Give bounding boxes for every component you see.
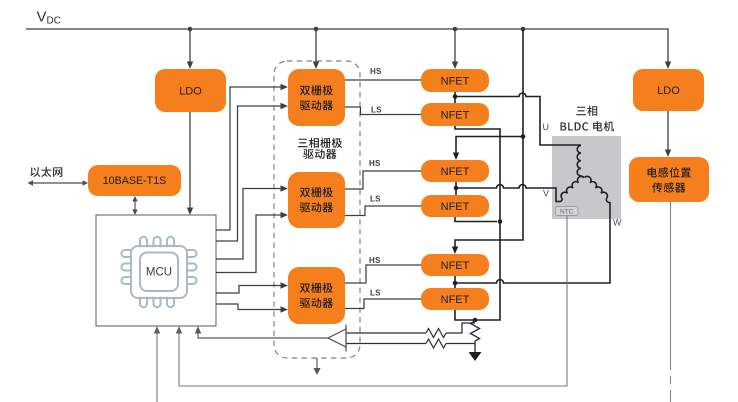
wire VDC rail to dual gate driver 1 <box>315 29 317 62</box>
motor winding phase U coil <box>577 146 584 178</box>
svg-text:U: U <box>543 122 550 132</box>
wire LDO2 to position sensor <box>667 111 669 150</box>
svg-text:NFET: NFET <box>441 110 470 122</box>
junction Q4 source on ground bus <box>498 219 503 224</box>
svg-text:NFET: NFET <box>441 260 470 272</box>
NFET Q1 <box>421 69 489 92</box>
junction on VDC rail above LDO <box>188 27 193 32</box>
wire phase V node Q3 source to Q4 drain <box>455 182 457 195</box>
svg-text:LS: LS <box>371 106 382 115</box>
svg-text:NFET: NFET <box>441 294 470 306</box>
wire MCU PWM4 to driver2 LS input <box>216 215 281 273</box>
motor winding phase V end hook <box>560 199 563 202</box>
svg-text:VDC: VDC <box>37 9 61 27</box>
wire 10BASE-T1S to MCU bidirectional <box>134 197 136 214</box>
NFET Q5 <box>421 254 489 276</box>
svg-text:HS: HS <box>369 159 381 168</box>
junction phase U <box>453 94 458 99</box>
junction on VDC rail for HS drain bus <box>521 27 526 32</box>
wire MCU PWM5 to driver3 HS input <box>216 286 281 294</box>
wire driver3 LS output to NFET Q6 gate <box>345 299 421 309</box>
wire MCU PWM2 to driver1 LS input <box>216 106 281 241</box>
inductive position sensor 电感位置传感器 <box>629 157 709 202</box>
junction on VDC rail above gate driver 1 <box>314 27 319 32</box>
junction phase W <box>453 281 458 286</box>
ground below dashed box <box>316 358 318 368</box>
motor winding phase W coil <box>585 175 610 199</box>
wire VDC rail to NFET Q1 drain <box>454 29 456 62</box>
motor winding phase W end hook <box>606 199 610 203</box>
resistor sense bottom <box>346 339 475 348</box>
svg-text:NFET: NFET <box>441 166 470 178</box>
wire op-amp output to MCU ADC <box>198 333 328 338</box>
svg-text:MCU: MCU <box>146 267 172 279</box>
wire Q6 source to shunt node <box>455 310 475 320</box>
wire MCU PWM1 to driver1 HS input <box>216 87 281 230</box>
NFET Q3 <box>421 160 489 182</box>
junction drain bus to NFET Q3 <box>521 134 526 139</box>
wire LDO1 to MCU 3V3 <box>189 112 191 208</box>
wire position sensor output <box>670 202 672 402</box>
wire driver1 LS output to NFET Q2 gate <box>345 107 421 115</box>
NFET Q2 <box>421 103 489 126</box>
wire MCU PWM3 to driver2 HS input <box>216 189 281 260</box>
resistor shunt (vertical) <box>471 321 480 352</box>
wire MCU PWM6 to driver3 LS input <box>216 304 281 310</box>
svg-text:NFET: NFET <box>441 76 470 88</box>
NFET Q4 <box>421 195 489 217</box>
wire phase W node Q5 source to Q6 drain <box>454 276 456 288</box>
resistor sense top <box>346 323 475 338</box>
motor body 三相 BLDC 电机 <box>552 136 621 219</box>
wire VDC rail to LDO1 <box>189 29 191 62</box>
junction phase V <box>454 186 459 191</box>
svg-text:V: V <box>543 189 549 199</box>
svg-text:NTC: NTC <box>560 209 574 216</box>
svg-text:W: W <box>613 218 622 228</box>
dashed box three-phase gate driver <box>274 61 360 358</box>
motor winding phase V coil <box>559 175 584 199</box>
PHY 10BASE-T1S <box>88 165 181 196</box>
svg-text:LDO: LDO <box>179 86 202 98</box>
dual gate driver U2 <box>288 172 345 228</box>
NTC thermistor label box <box>556 207 579 216</box>
LDO U4 (left) <box>155 69 226 112</box>
dual gate driver U3 <box>288 267 345 324</box>
wire phase W to motor terminal W <box>455 202 610 283</box>
op-amp current sense <box>345 325 347 352</box>
svg-text:LS: LS <box>370 195 381 204</box>
junction shunt node <box>473 318 478 323</box>
wire phase V to motor terminal V <box>456 185 561 202</box>
svg-text:HS: HS <box>369 256 381 265</box>
wire drain bus to NFET Q3 drain <box>456 137 523 154</box>
dual gate driver U1 <box>288 69 345 126</box>
wire driver2 HS output to NFET Q3 gate <box>345 171 421 189</box>
label BLDC 电机 <box>561 121 615 131</box>
svg-text:HS: HS <box>370 67 382 76</box>
wire phase U to motor terminal U <box>455 93 581 145</box>
LDO U5 (right) <box>633 69 704 111</box>
MCU chip icon <box>121 237 196 307</box>
arrowhead into LDO2 <box>665 62 671 70</box>
wire MCU aux signal to bottom edge <box>156 333 158 402</box>
wire driver2 LS output to NFET Q4 gate <box>345 206 421 216</box>
wire Q2 source to ground bus <box>455 126 500 320</box>
label 三相 <box>576 106 597 116</box>
NFET Q6 <box>421 288 489 310</box>
wire driver1 HS output to NFET Q1 gate <box>345 79 421 81</box>
wire driver3 HS output to NFET Q5 gate <box>345 265 421 283</box>
svg-text:10BASE-T1S: 10BASE-T1S <box>103 175 167 187</box>
net VDC top power rail <box>26 29 668 62</box>
wire Q4 source to ground bus <box>455 217 497 222</box>
wire VDC drain bus to NFET Q5 drain <box>455 29 523 247</box>
ground power <box>469 352 482 361</box>
MCU block <box>96 215 216 326</box>
svg-text:NFET: NFET <box>441 201 470 213</box>
junction on VDC rail above NFET Q1 <box>453 27 458 32</box>
svg-text:LDO: LDO <box>657 85 680 97</box>
wire phase U node Q1 source to Q2 drain <box>454 92 456 103</box>
svg-text:LS: LS <box>370 289 381 298</box>
wire NTC sense to MCU <box>179 216 567 387</box>
label 三相栅极驱动器 <box>298 138 342 148</box>
label Ethernet 以太网 <box>30 167 62 177</box>
wire Ethernet bidirectional link <box>29 182 87 184</box>
